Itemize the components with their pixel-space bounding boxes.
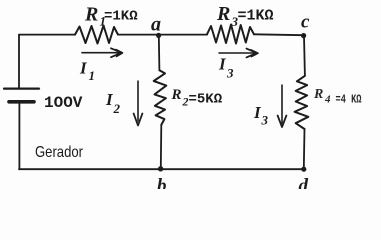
svg-text:a: a	[151, 14, 161, 36]
svg-text:R: R	[313, 87, 323, 102]
svg-text:I: I	[218, 55, 227, 74]
label I3 (top)	[218, 55, 234, 81]
battery plate short (bottom)	[9, 100, 34, 104]
resistor R3	[207, 25, 254, 44]
svg-text:4: 4	[324, 94, 331, 106]
svg-text:c: c	[301, 12, 310, 33]
wire node a down to R2	[158, 35, 161, 70]
wire between R1 and node a	[118, 34, 159, 36]
svg-text:=1KΩ: =1KΩ	[104, 9, 138, 25]
svg-text:Gerador: Gerador	[35, 144, 84, 161]
resistor R1	[75, 26, 118, 44]
svg-text:=1KΩ: =1KΩ	[238, 8, 274, 25]
wire left upper	[18, 35, 20, 88]
node b	[158, 166, 163, 171]
arrow I2	[134, 81, 143, 126]
label I1	[79, 59, 95, 84]
wire R4 down to node d	[303, 129, 306, 169]
svg-text:R: R	[216, 3, 230, 25]
wire bottom	[19, 168, 304, 170]
node a	[156, 33, 161, 38]
arrow I3 (top)	[219, 49, 258, 58]
resistor R2	[154, 70, 167, 125]
svg-text:R: R	[84, 4, 98, 26]
node c	[301, 33, 306, 38]
svg-text:3: 3	[226, 66, 234, 81]
label I2	[105, 90, 121, 116]
wire left lower	[18, 102, 20, 169]
svg-text:R: R	[171, 87, 182, 103]
resistor R4	[295, 76, 309, 129]
svg-text:2: 2	[113, 101, 121, 116]
svg-text:=5KΩ: =5KΩ	[189, 91, 223, 107]
label R2=5KΩ	[171, 87, 223, 109]
arrow I3 (right)	[278, 85, 287, 127]
svg-text:3: 3	[261, 113, 269, 128]
label I3 (right)	[253, 103, 269, 128]
label R3=1KΩ	[216, 3, 274, 29]
svg-text:1OOV: 1OOV	[44, 94, 83, 112]
node d	[301, 167, 306, 172]
svg-text:d: d	[299, 176, 309, 190]
arrow I1	[82, 48, 123, 57]
wire between R3 and node c	[254, 33, 304, 36]
label R4=4KΩ	[313, 87, 362, 107]
wire between node a and R3	[159, 34, 207, 36]
wire top-left segment	[19, 34, 75, 36]
label R1=1KΩ	[84, 4, 138, 29]
svg-text:b: b	[157, 176, 167, 190]
battery plate long (top)	[4, 87, 39, 89]
svg-text:I: I	[79, 59, 88, 78]
svg-text:2: 2	[182, 95, 189, 109]
wire node c down to R4	[303, 36, 306, 76]
svg-text:=4 KΩ: =4 KΩ	[336, 94, 362, 107]
svg-text:1: 1	[89, 68, 96, 83]
wire R2 down to node b	[160, 125, 163, 168]
